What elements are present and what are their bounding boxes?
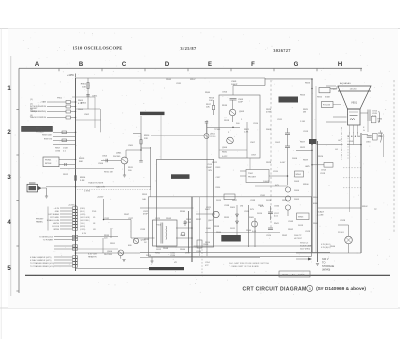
svg-text:D912: D912	[156, 249, 162, 251]
svg-text:R944: R944	[180, 249, 186, 251]
resistor R905	[62, 131, 67, 134]
svg-text:C910: C910	[332, 89, 338, 91]
trace rotation coil cluster	[347, 144, 361, 146]
connector column P904 pin boxes	[73, 256, 78, 267]
wire y186 F col	[255, 185, 288, 187]
svg-text:4.7K: 4.7K	[78, 103, 83, 105]
wire front panel signal + GAIN	[47, 101, 66, 103]
capacitor C912b	[268, 211, 273, 213]
svg-text:C: C	[122, 62, 127, 68]
svg-text:D901: D901	[266, 129, 272, 131]
T901 core lines	[160, 223, 162, 244]
wire y176 right	[240, 175, 246, 177]
svg-text:D906 TP: D906 TP	[294, 235, 302, 237]
wire chain bottom	[287, 210, 289, 216]
svg-text:(ORN): (ORN)	[80, 229, 86, 231]
wire ladder2 y140	[53, 139, 76, 141]
svg-text:2SC2335: 2SC2335	[104, 254, 112, 256]
svg-text:TO POWER: TO POWER	[43, 239, 54, 241]
svg-text:N5: N5	[93, 217, 95, 219]
svg-text:PL901: PL901	[338, 232, 345, 234]
svg-text:C931: C931	[176, 83, 182, 85]
diode D904 circle	[285, 196, 290, 201]
wire bus bottom to y268	[76, 267, 151, 269]
wire ladder2 y132	[53, 131, 76, 133]
wire y236 to right	[78, 236, 118, 238]
svg-text:B: B	[79, 62, 84, 68]
HV unit dashed boundary left	[270, 80, 272, 230]
svg-text:INTEN: INTEN	[53, 229, 59, 231]
wire CRT left pin y122	[326, 121, 347, 123]
svg-text:R959: R959	[282, 200, 288, 202]
svg-text:R945: R945	[313, 223, 319, 225]
svg-text:SCALE LAMP: SCALE LAMP	[300, 245, 313, 248]
ground Q906	[120, 256, 122, 259]
svg-text:CRT GRID: CRT GRID	[50, 217, 60, 219]
svg-text:1M: 1M	[240, 206, 243, 208]
grid numbers 1-5	[7, 86, 11, 272]
bracket right top	[378, 111, 381, 123]
svg-text:470P: 470P	[143, 214, 148, 216]
capacitor C918	[268, 227, 273, 229]
wire front panel row 3	[60, 213, 72, 215]
net label HV CAUTION (dark bar)	[221, 235, 241, 242]
ground bottom x152	[151, 257, 153, 261]
svg-text:6.3VAC HEATER (GRY): 6.3VAC HEATER (GRY)	[30, 256, 52, 259]
wire y133.5 top of R910	[133, 133, 141, 135]
wire step down to box	[150, 190, 152, 197]
left ruler ticks	[16, 110, 19, 292]
svg-text:C1740: C1740	[210, 136, 215, 138]
svg-text:R916: R916	[205, 92, 211, 94]
wire lower row	[54, 262, 72, 264]
svg-text:R929: R929	[303, 160, 309, 162]
wire top bus y78	[76, 77, 266, 79]
wire y135.5 to Q902	[151, 135, 204, 137]
wire y246 long	[194, 245, 313, 247]
svg-text:C916: C916	[366, 142, 371, 144]
secondary lead x188.5	[188, 211, 190, 253]
dark component box R927	[309, 139, 317, 144]
connector box W904	[295, 171, 304, 177]
wire rows mid y236	[54, 236, 76, 238]
svg-text:R945: R945	[166, 79, 172, 81]
svg-text:680K: 680K	[313, 203, 319, 205]
svg-text:C906: C906	[222, 92, 228, 94]
svg-text:0.022: 0.022	[222, 156, 228, 158]
svg-text:CRT CIRCUIT DIAGRAM: CRT CIRCUIT DIAGRAM	[243, 287, 307, 293]
wire base Q901	[101, 160, 121, 162]
wire front panel row 8	[60, 228, 72, 230]
svg-text:(BRN): (BRN)	[80, 226, 85, 228]
interface tall box left edge	[317, 141, 319, 262]
wire vertical x199.5	[199, 197, 201, 256]
svg-text:R901: R901	[81, 84, 87, 86]
wire vertical x247	[246, 122, 248, 158]
svg-text:+ GAIN: + GAIN	[40, 101, 47, 104]
svg-text:C920: C920	[244, 211, 250, 213]
transistor Q901	[121, 157, 128, 164]
capacitor C916 cluster	[367, 135, 372, 137]
wire front panel row 5	[60, 219, 72, 221]
top ruler line	[19, 67, 362, 69]
svg-text:D915: D915	[216, 200, 222, 202]
svg-text:TO TRANSFORMER (VIO): TO TRANSFORMER (VIO)	[30, 262, 54, 265]
HV oscillator inner box	[157, 159, 214, 247]
svg-text:R948: R948	[163, 248, 169, 250]
module boundary dash-dot x341.4	[340, 127, 342, 160]
svg-text:10K: 10K	[82, 86, 86, 88]
svg-text:R943: R943	[166, 218, 172, 220]
wire y170 right	[240, 170, 246, 172]
svg-text:(WHT-RED): (WHT-RED)	[80, 220, 90, 222]
CRT heater	[350, 119, 355, 121]
potentiometer RV901 INTENSITY	[43, 157, 59, 167]
svg-text:C902: C902	[84, 114, 90, 116]
wire y214 right	[196, 213, 215, 215]
transistor Q902	[204, 134, 209, 139]
net label BLANKING (dark bar)	[171, 174, 190, 179]
svg-text:R912: R912	[63, 174, 69, 176]
bottom title circled 3	[307, 285, 313, 291]
svg-text:1510 OSCILLOSCOPE: 1510 OSCILLOSCOPE	[73, 46, 123, 51]
wire lamp top	[348, 225, 350, 236]
wire lower row	[54, 265, 72, 267]
wire box top-left	[72, 96, 95, 98]
svg-text:Q903: Q903	[239, 111, 245, 113]
CRT faceplate double line	[338, 90, 371, 92]
svg-text:GND: GND	[305, 166, 310, 168]
svg-text:3: 3	[309, 287, 311, 291]
wire vertical x361 dark	[360, 133, 362, 253]
svg-text:6.3V: 6.3V	[82, 233, 87, 235]
CRT cathode	[350, 115, 358, 117]
svg-text:D916: D916	[266, 200, 272, 202]
svg-text:C913: C913	[303, 131, 309, 133]
svg-text:INT (BLANKING): INT (BLANKING)	[32, 110, 47, 113]
svg-text:(GRN): (GRN)	[80, 214, 86, 216]
wire focus to neck	[333, 104, 341, 106]
svg-text:6KV: 6KV	[275, 185, 280, 187]
CRT base leads down	[349, 125, 351, 212]
svg-text:HV TEST: HV TEST	[294, 238, 303, 240]
wire T901 out 2	[176, 237, 192, 239]
wire y148 link	[141, 147, 151, 149]
svg-text:D906: D906	[292, 158, 298, 160]
svg-text:(4): (4)	[30, 115, 33, 117]
svg-text:PANEL: PANEL	[36, 221, 44, 224]
wire front panel signal INT (BLANKING)	[47, 111, 66, 113]
connector column P902 pin boxes	[73, 207, 78, 230]
paper top edge	[0, 28, 400, 30]
wire y165 G	[312, 164, 324, 166]
svg-text:6.3VAC HEATER (GRY): 6.3VAC HEATER (GRY)	[30, 259, 52, 262]
capacitor C923	[184, 220, 186, 226]
svg-text:FOCUS: FOCUS	[52, 226, 59, 228]
resistor R938 box	[197, 240, 202, 248]
wire front panel row 6	[60, 222, 72, 224]
svg-text:TP901: TP901	[214, 129, 221, 131]
svg-text:2.2M: 2.2M	[186, 222, 191, 224]
svg-text:(S# D140969 & above): (S# D140969 & above)	[316, 286, 366, 292]
wire ladder2 y144	[53, 143, 76, 145]
svg-text:TO INTERLOCK: TO INTERLOCK	[39, 236, 54, 238]
connector column P903 pin boxes	[73, 235, 78, 250]
net label bottom (dark bar 5)	[149, 267, 184, 270]
wire vertical x103	[102, 238, 104, 253]
error amp box	[219, 95, 260, 158]
svg-text:E: E	[208, 62, 212, 68]
svg-text:6.3V CRT: 6.3V CRT	[88, 254, 98, 256]
wire y253 to right	[76, 252, 141, 254]
wire x111 drop	[110, 228, 112, 238]
svg-text:R923: R923	[305, 83, 311, 85]
interface box top divider	[318, 207, 362, 209]
svg-text:D911: D911	[230, 228, 236, 230]
svg-text:MODEL: MODEL	[282, 274, 289, 276]
wire y144.5 to pins	[317, 144, 343, 146]
svg-text:R956: R956	[313, 197, 319, 199]
svg-text:N11: N11	[93, 229, 96, 231]
svg-text:1: 1	[349, 133, 350, 135]
wire y257 bottom	[140, 256, 260, 258]
svg-text:120P: 120P	[238, 102, 243, 104]
svg-text:R919: R919	[224, 120, 230, 122]
svg-text:C925: C925	[155, 218, 161, 220]
diode D905 circle	[285, 205, 290, 210]
sheet inner left border	[10, 56, 12, 296]
capacitor C903	[64, 163, 66, 166]
connector W901 CAL output	[27, 184, 38, 192]
wire rows mid y249	[54, 248, 76, 250]
dashed vertical x202	[201, 246, 203, 275]
svg-text:TO TRANSFORMER (VIO): TO TRANSFORMER (VIO)	[30, 265, 54, 268]
focus pot box RV902	[322, 102, 334, 108]
svg-text:ASTIG: ASTIG	[36, 127, 43, 130]
svg-text:(WHT-GRN): (WHT-GRN)	[80, 217, 90, 219]
svg-text:W902: W902	[362, 206, 368, 208]
arrow symbol y258	[308, 258, 312, 261]
wire long y187	[46, 186, 151, 188]
revision table box	[279, 271, 310, 277]
wire y150 bottom of box	[219, 149, 247, 151]
svg-text:(1): (1)	[30, 99, 33, 101]
svg-text:CAL 0.5V: CAL 0.5V	[96, 186, 106, 189]
svg-text:R958: R958	[258, 205, 264, 207]
svg-text:D917: D917	[185, 253, 191, 255]
wire front panel row 1	[60, 207, 72, 209]
svg-text:C939: C939	[250, 200, 256, 202]
diode D909 circle	[252, 221, 258, 227]
svg-text:R937: R937	[196, 219, 202, 221]
svg-text:10K: 10K	[209, 100, 213, 102]
resistor R931 box lower	[373, 134, 378, 141]
wire base feed Q906	[76, 248, 119, 250]
transistor Q904	[227, 137, 234, 144]
svg-text:R935: R935	[224, 217, 230, 219]
svg-text:R957: R957	[232, 200, 238, 202]
wire y219.5	[104, 219, 132, 221]
svg-text:C928: C928	[340, 220, 346, 222]
wire vertical x101	[100, 109, 102, 132]
svg-text:D914: D914	[146, 255, 152, 257]
svg-text:150K: 150K	[63, 148, 69, 150]
svg-text:3026727: 3026727	[273, 48, 291, 53]
wire x248.3 drop	[247, 205, 249, 247]
svg-text:R949: R949	[186, 219, 192, 221]
svg-text:R950: R950	[205, 242, 211, 244]
svg-text:R928: R928	[266, 162, 272, 164]
svg-text:R913: R913	[79, 158, 85, 160]
svg-text:100K: 100K	[206, 228, 212, 230]
wire CRT left pin y117	[333, 116, 347, 118]
svg-text:W906: W906	[303, 184, 309, 186]
wire x368 vertical	[367, 121, 369, 132]
svg-text:P901: P901	[92, 211, 96, 213]
wire chain down	[287, 153, 289, 185]
svg-text:SCALE ILLUM: SCALE ILLUM	[47, 219, 60, 222]
T901 windings	[165, 226, 168, 240]
svg-text:D910: D910	[257, 213, 263, 215]
svg-text:R907: R907	[55, 148, 61, 150]
svg-text:C921: C921	[206, 207, 212, 209]
svg-text:C927: C927	[128, 218, 134, 220]
svg-text:HV ADJ: HV ADJ	[36, 130, 44, 133]
svg-text:R908 100K: R908 100K	[42, 135, 53, 137]
wire top entry x233	[232, 86, 234, 96]
svg-text:C934: C934	[170, 255, 176, 257]
wire vertical x348 dashes	[347, 135, 349, 160]
svg-text:D903: D903	[294, 181, 300, 183]
wire y208 top	[140, 207, 194, 209]
top ruler ticks	[59, 68, 361, 71]
svg-text:C909: C909	[231, 81, 237, 83]
svg-text:FOCUS: FOCUS	[323, 105, 331, 107]
svg-text:R926: R926	[318, 156, 324, 158]
wire lower row	[54, 256, 72, 258]
wire x131 drop	[130, 220, 132, 239]
wire y127 in box	[207, 126, 240, 128]
svg-text:ILLUM: ILLUM	[317, 215, 324, 217]
svg-text:1 KHZ: 1 KHZ	[84, 191, 91, 193]
resistor R906	[62, 139, 67, 142]
wire W901 to node	[42, 187, 47, 189]
capacitor C908	[230, 98, 237, 100]
svg-text:C924: C924	[266, 235, 272, 237]
wire Q902 collector up	[206, 123, 208, 134]
svg-text:R925: R925	[317, 97, 323, 99]
ground x317.5 bottom	[316, 263, 319, 265]
wire front panel row 7	[60, 225, 72, 227]
diode D912 small	[181, 232, 185, 236]
wire anode lower y134.5	[362, 134, 368, 136]
net label INTENSITY bus (dark bar)	[140, 112, 165, 115]
wire ladder right link	[76, 119, 102, 121]
svg-text:W907: W907	[190, 79, 196, 81]
svg-text:INT MODULATION: INT MODULATION	[30, 105, 47, 108]
svg-text:+105V: +105V	[97, 197, 104, 199]
svg-text:C910: C910	[253, 123, 259, 125]
svg-text:R955: R955	[142, 194, 148, 196]
svg-text:1M: 1M	[378, 136, 381, 138]
svg-text:ASTIG: ASTIG	[53, 222, 59, 225]
svg-text:R934: R934	[144, 239, 150, 241]
svg-text:R962: R962	[288, 229, 294, 231]
svg-text:(2): (2)	[30, 104, 33, 106]
capacitor C915 bracket	[367, 110, 369, 122]
svg-text:C914: C914	[321, 170, 327, 172]
ground below W901	[46, 188, 48, 196]
transistor Q907	[213, 211, 219, 217]
wire ladder2 y136	[53, 135, 76, 137]
wire T901 secondary out	[176, 227, 192, 229]
lamp PL901	[345, 236, 353, 244]
capacitor C912 chain	[285, 145, 290, 147]
svg-text:HV ADJ: HV ADJ	[45, 130, 52, 133]
svg-text:+105V: +105V	[68, 205, 75, 207]
svg-text:C919: C919	[320, 173, 326, 175]
svg-text:R922: R922	[212, 162, 218, 164]
svg-text:C933: C933	[140, 229, 146, 231]
wire vertical x141	[140, 116, 142, 160]
HV transformer T901 box	[153, 220, 178, 246]
wire y232	[205, 232, 280, 234]
wire vertical x88	[87, 78, 89, 109]
svg-text:EXT BLANK: EXT BLANK	[49, 213, 60, 216]
svg-text:C904: C904	[102, 156, 108, 158]
wire x250 drop	[249, 158, 251, 170]
svg-text:R903: R903	[78, 100, 84, 102]
wire emitter Q901 to ground	[124, 164, 126, 175]
svg-text:R961: R961	[155, 253, 161, 255]
wire y109	[76, 108, 101, 110]
wire rows mid y239	[54, 239, 76, 241]
wire lamp bottom	[348, 244, 350, 253]
svg-text:INTEN: INTEN	[45, 163, 52, 165]
HV multiplier box	[246, 170, 269, 183]
paper right edge	[396, 29, 398, 309]
svg-text:Q901: Q901	[116, 153, 122, 155]
transistor Q906	[118, 250, 124, 256]
thick secondary lead x192	[191, 197, 193, 262]
svg-text:W903: W903	[298, 217, 304, 219]
connector pin box P901-1	[66, 101, 71, 104]
panel label box (inverse) INTENSITY	[22, 126, 53, 131]
svg-text:D04 : FAST RISE PULSE GENER. S: D04 : FAST RISE PULSE GENER. SETTING	[229, 262, 270, 265]
svg-text:7: 7	[353, 133, 354, 135]
svg-text:SCALE: SCALE	[317, 211, 325, 214]
CRT grid pins	[349, 111, 358, 113]
wire y150 G col	[296, 149, 312, 151]
resistor R930 cluster top	[371, 116, 376, 123]
svg-text:F: F	[251, 62, 255, 68]
svg-text:T902: T902	[248, 173, 254, 175]
dashed y178 G	[343, 177, 361, 179]
svg-text:8: 8	[357, 133, 358, 135]
HV section enclosure box	[149, 197, 312, 256]
svg-text:1.5M: 1.5M	[300, 121, 305, 123]
svg-text:C938: C938	[224, 205, 230, 207]
svg-text:C940: C940	[274, 206, 280, 208]
svg-text:D904: D904	[294, 190, 300, 192]
divider box R924	[319, 88, 330, 93]
svg-text:G: G	[294, 62, 299, 68]
wire front panel signal TRACE ROTATION	[47, 117, 66, 119]
wire CRT anode right	[361, 112, 369, 114]
scan speckle noise	[15, 32, 395, 295]
svg-text:C929: C929	[305, 231, 311, 233]
svg-text:C935: C935	[196, 251, 202, 253]
